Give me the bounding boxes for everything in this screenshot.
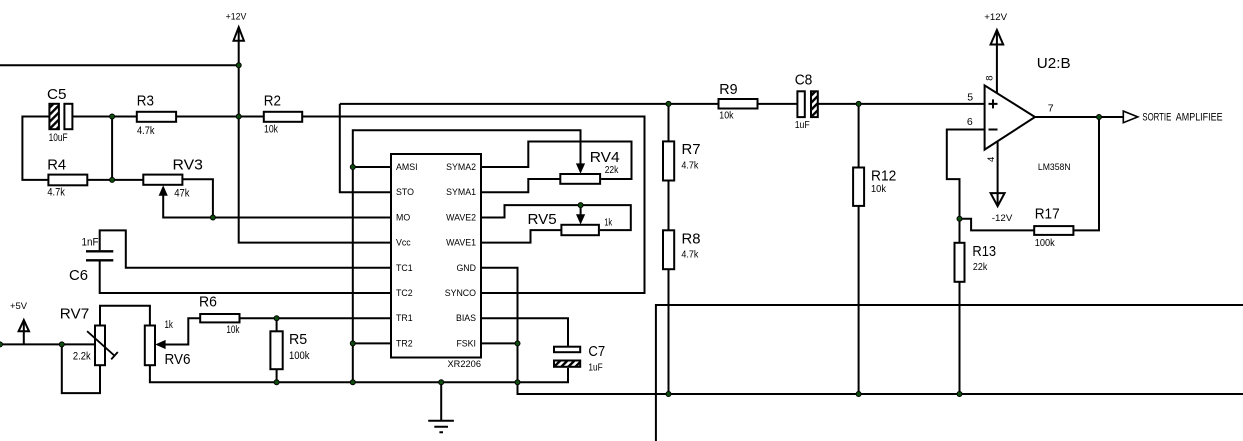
wire BIAS to C7 top — [481, 318, 568, 346]
svg-text:R8: R8 — [682, 232, 701, 248]
svg-text:R3: R3 — [137, 92, 154, 109]
wire AMSI to rail x353 — [353, 166, 391, 168]
resistor R5 — [270, 331, 282, 369]
wire rail to R2 left — [239, 116, 264, 118]
svg-text:1k: 1k — [604, 217, 612, 228]
potentiometer RV6 body — [145, 326, 155, 366]
wire GND pin rail down to lower bus — [481, 268, 1243, 394]
svg-text:WAVE2: WAVE2 — [446, 212, 476, 222]
wire RV4 wiper arrowhead — [576, 163, 585, 173]
node pin6/R13/R17 — [957, 216, 962, 221]
pin number 5 — [967, 92, 973, 104]
op-amp U2:B triangle — [985, 85, 1035, 149]
wire op-amp pin7 output — [1035, 116, 1123, 118]
power symbol -12V arrow — [991, 193, 1005, 206]
node R12 lower bus — [856, 392, 861, 397]
svg-text:BIAS: BIAS — [456, 313, 476, 323]
label RV6 — [165, 350, 191, 367]
node R5 bottom — [274, 380, 279, 385]
label R3 — [137, 92, 154, 109]
resistor R9 — [719, 99, 758, 109]
node FSKI/GND rail — [515, 341, 520, 346]
wire RV3 wiper arrowhead — [159, 185, 168, 196]
label R6 — [199, 294, 217, 310]
svg-text:10uF: 10uF — [49, 132, 68, 144]
wire +5V feed to RV7 left — [0, 343, 95, 345]
svg-text:+12V: +12V — [226, 11, 248, 21]
potentiometer RV3 body — [143, 175, 182, 185]
svg-text:R2: R2 — [264, 92, 281, 109]
label 10k R9 — [719, 110, 733, 122]
label R4 — [47, 158, 66, 174]
potentiometer RV4 body — [560, 174, 600, 184]
power symbol +5V stem — [23, 320, 25, 344]
resistor R3 — [137, 112, 176, 122]
svg-text:R4: R4 — [47, 158, 66, 174]
svg-text:-12V: -12V — [992, 213, 1013, 224]
label 2.2k RV7 — [73, 351, 92, 363]
wire R5 top branch — [276, 318, 278, 331]
label C7 — [588, 344, 605, 360]
wire R7 R8 rail — [668, 104, 670, 394]
node R8 lower bus — [666, 392, 671, 397]
svg-text:+12V: +12V — [984, 12, 1007, 23]
svg-text:SYMA1: SYMA1 — [446, 187, 476, 197]
wire R5 bottom branch — [276, 369, 278, 382]
node C5/R3 — [110, 114, 115, 119]
svg-text:FSKI: FSKI — [456, 338, 476, 348]
resistor R17 — [1034, 226, 1073, 235]
wire R13 bottom to lower bus — [959, 282, 961, 394]
svg-text:RV6: RV6 — [165, 350, 191, 367]
svg-text:22k: 22k — [973, 261, 988, 273]
svg-text:LM358N: LM358N — [1038, 162, 1071, 172]
pin number 4 rotated — [986, 157, 997, 162]
svg-text:10k: 10k — [226, 324, 239, 337]
label R9 — [719, 82, 737, 98]
resistor R12 — [853, 168, 864, 206]
svg-text:U2:B: U2:B — [1037, 56, 1071, 72]
svg-text:+5V: +5V — [10, 301, 28, 312]
ground symbol — [428, 421, 454, 433]
IC U1 pin labels left — [396, 162, 418, 348]
label 4.7k R4 — [47, 187, 65, 199]
node GND rail ground bus — [515, 380, 520, 385]
TEXT_START — [10, 11, 1223, 372]
resistor R13 — [955, 243, 965, 282]
label 1nF — [82, 237, 99, 249]
wire node A to R3 — [112, 116, 137, 118]
power symbol +12V (op-amp) — [991, 30, 1004, 45]
label 47k RV3 — [174, 188, 190, 200]
wire R2 right long to SYNCO rail — [302, 117, 644, 294]
svg-text:100k: 100k — [1035, 238, 1055, 250]
svg-text:1k: 1k — [165, 319, 174, 332]
wire R12 rail — [858, 104, 860, 394]
svg-text:MO: MO — [396, 212, 410, 222]
IC U1 pin labels right — [445, 162, 476, 348]
label R7 — [682, 142, 701, 158]
svg-text:C8: C8 — [795, 72, 813, 88]
svg-text:R7: R7 — [682, 142, 701, 158]
wire op-amp pin8 stem — [996, 30, 998, 94]
svg-text:Vcc: Vcc — [396, 238, 411, 248]
svg-text:1uF: 1uF — [588, 362, 603, 373]
svg-text:RV7: RV7 — [60, 307, 89, 323]
svg-text:R5: R5 — [289, 332, 307, 348]
capacitor C7 plate positive — [554, 347, 580, 353]
pin number 8 rotated — [984, 75, 995, 80]
node RV7 branch — [59, 342, 64, 347]
capacitor C8 plate negative (hatched) — [811, 91, 818, 117]
wire ground stem — [440, 382, 442, 421]
svg-text:1nF: 1nF — [82, 237, 99, 249]
capacitor C5 plate positive — [64, 104, 72, 129]
label +12V op-amp — [984, 12, 1007, 23]
label 4.7k R8 — [681, 249, 698, 261]
node +12V rail top feed — [236, 63, 241, 68]
wire RV7 top to RV6 top — [100, 306, 150, 326]
wire STO to top bus — [340, 104, 391, 192]
resistor R7 — [663, 141, 674, 180]
wire feedback node to R17 left — [960, 219, 1035, 231]
label -12V — [992, 213, 1013, 224]
label 10k R2 — [264, 124, 278, 136]
node RV3 wiper — [210, 215, 215, 220]
wire RV6 wiper arrowhead — [155, 340, 165, 349]
resistor R4 — [48, 175, 87, 186]
svg-text:STO: STO — [396, 187, 414, 197]
wire op-amp pin4 stem — [997, 140, 999, 205]
svg-text:RV3: RV3 — [173, 157, 203, 173]
label LM358N — [1038, 162, 1071, 172]
resistor R8 — [663, 230, 674, 269]
svg-text:TR2: TR2 — [396, 338, 413, 348]
label 100k R17 — [1035, 238, 1055, 250]
wire RV6 bottom to ground bus to C7 bottom — [150, 365, 568, 382]
svg-text:SORTIE: SORTIE — [1142, 110, 1171, 123]
svg-text:6: 6 — [967, 116, 973, 128]
svg-text:SYMA2: SYMA2 — [446, 162, 476, 172]
label R8 — [682, 232, 701, 248]
wire RV5 wiper stem — [580, 205, 582, 218]
label 1k RV5 — [604, 217, 612, 228]
wire RV3 wiper to node and MO pin — [163, 194, 391, 218]
svg-text:WAVE1: WAVE1 — [446, 238, 476, 248]
node R13 lower bus — [957, 392, 962, 397]
svg-text:R6: R6 — [199, 294, 217, 310]
node R4/RV3 — [110, 177, 115, 182]
power symbol +12V (left) — [234, 27, 244, 41]
wire node A vertical to R4/RV3 node — [111, 117, 113, 180]
svg-text:10k: 10k — [264, 124, 278, 136]
svg-text:TC1: TC1 — [396, 263, 413, 273]
label RV4 — [590, 149, 620, 165]
wire SYMA2 to RV4 right over the top — [481, 142, 632, 180]
label 10k R6 — [226, 324, 239, 337]
label 10k R12 — [871, 184, 886, 196]
capacitor C7 plate negative (hatched) — [554, 361, 580, 367]
label RV5 — [528, 212, 557, 228]
svg-text:AMSI: AMSI — [396, 162, 418, 172]
label 22k R13 — [973, 261, 988, 273]
wire op-amp pin6 jog to feedback node — [947, 130, 985, 219]
op-amp minus input marker — [989, 129, 998, 131]
node RV5 wiper — [578, 203, 583, 208]
label R12 — [871, 167, 896, 183]
potentiometer RV5 body — [561, 225, 599, 235]
svg-text:AMPLIFIEE: AMPLIFIEE — [1176, 112, 1223, 124]
wire C5 right to node A — [72, 116, 112, 118]
wire WAVE1 to RV5 left — [481, 230, 561, 243]
svg-text:4: 4 — [986, 157, 997, 162]
svg-text:R9: R9 — [719, 82, 737, 98]
svg-text:10k: 10k — [871, 184, 886, 196]
node R5 top — [274, 316, 279, 321]
wire C6 bottom plate to TC2 — [100, 261, 391, 293]
svg-text:R12: R12 — [871, 167, 896, 183]
capacitor C5 plate negative (hatched) — [49, 104, 59, 129]
node AMSI rail — [350, 165, 355, 170]
svg-text:5: 5 — [967, 92, 973, 104]
op-amp plus input marker — [989, 99, 998, 108]
label 1uF C7 — [588, 362, 603, 373]
svg-text:C7: C7 — [588, 344, 605, 360]
label 22k RV4 — [605, 164, 619, 175]
wire R3 right to +12V rail — [176, 116, 239, 118]
node ground bus center — [439, 380, 444, 385]
label 4.7k R3 — [137, 125, 155, 137]
svg-text:R13: R13 — [972, 243, 996, 259]
capacitor C6 plates — [86, 251, 113, 260]
label 4.7k R7 — [681, 160, 698, 172]
node R12 top bus — [856, 101, 861, 106]
wire RV6 wiper to R6 left — [157, 318, 200, 344]
svg-text:2.2k: 2.2k — [73, 351, 92, 363]
resistor R2 — [264, 112, 302, 122]
node TR2 rail — [350, 341, 355, 346]
svg-text:4.7k: 4.7k — [681, 249, 698, 261]
label +5V — [10, 301, 28, 312]
label 100k R5 — [289, 350, 310, 362]
wire WAVE2 to RV5 wiper and right terminal — [481, 205, 631, 230]
label AMPLIFIEE — [1176, 112, 1223, 124]
node output feedback — [1097, 115, 1102, 120]
svg-text:TR1: TR1 — [396, 313, 413, 323]
wire FSKI to rail — [481, 342, 518, 344]
label C5 — [47, 88, 66, 104]
label R2 — [264, 92, 281, 109]
potentiometer RV7 trimmer diagonal — [87, 331, 118, 359]
svg-text:1uF: 1uF — [795, 119, 810, 131]
power +12V rail vertical with Vcc branch — [239, 27, 391, 242]
node +12V rail R3/R2 — [236, 114, 241, 119]
node rail ground bus — [350, 380, 355, 385]
potentiometer RV7 body — [95, 326, 105, 366]
label R17 — [1035, 205, 1060, 221]
svg-text:8: 8 — [984, 75, 995, 80]
wire TR1 line R6 to chip — [240, 317, 392, 319]
wire R17 right up to output node — [1073, 117, 1099, 230]
svg-text:SYNCO: SYNCO — [445, 288, 476, 298]
wire TR2 to rail — [353, 342, 391, 344]
DOTS_START — [0, 63, 1102, 397]
power symbol +5V arrow — [19, 320, 29, 331]
wire C5 left loop to R4 — [22, 117, 49, 180]
wire R4 right to RV3 left — [87, 179, 143, 181]
label 1uF C8 — [795, 119, 810, 131]
label XR2206 — [448, 359, 481, 369]
wire RV3 right terminal down to wiper node — [182, 179, 213, 217]
label C8 — [795, 72, 813, 88]
label SORTIE — [1142, 110, 1171, 123]
svg-text:R17: R17 — [1035, 205, 1060, 221]
svg-text:10k: 10k — [719, 110, 733, 122]
PARTS_START — [48, 85, 1137, 432]
label 1k RV6 — [165, 319, 174, 332]
wire RV5 wiper arrowhead — [576, 214, 585, 224]
wire feedback node to R13 top — [959, 219, 961, 243]
svg-text:100k: 100k — [289, 350, 310, 362]
resistor R6 — [200, 314, 239, 322]
svg-text:47k: 47k — [174, 188, 190, 200]
output port SORTIE AMPLIFIEE triangle — [1123, 111, 1138, 123]
label R13 — [972, 243, 996, 259]
svg-text:4.7k: 4.7k — [137, 125, 155, 137]
svg-text:GND: GND — [456, 263, 476, 273]
svg-text:C5: C5 — [47, 88, 66, 104]
pin number 6 — [967, 116, 973, 128]
svg-text:4.7k: 4.7k — [681, 160, 698, 172]
wire rail x353 AMSI/TR2/ground-bus with RV4 wiper branch — [353, 130, 581, 382]
pin number 7 — [1048, 103, 1054, 115]
node +5V edge — [0, 342, 3, 347]
label RV3 — [173, 157, 203, 173]
capacitor C8 plate positive — [797, 91, 804, 117]
wire lower-right open net y305 — [656, 305, 1243, 441]
label U2:B — [1037, 56, 1071, 72]
svg-text:22k: 22k — [605, 164, 619, 175]
node R7 top bus — [666, 101, 671, 106]
svg-text:XR2206: XR2206 — [448, 359, 481, 369]
wire RV7 bottom U-loop — [62, 344, 100, 393]
svg-text:RV5: RV5 — [528, 212, 557, 228]
svg-text:7: 7 — [1048, 103, 1054, 115]
IC U1 XR2206 body — [391, 154, 481, 358]
wire SYMA1 to RV4 left — [481, 179, 560, 192]
label R5 — [289, 332, 307, 348]
label +12V left — [226, 11, 248, 21]
svg-text:C6: C6 — [69, 268, 88, 284]
svg-text:4.7k: 4.7k — [47, 187, 65, 199]
svg-text:TC2: TC2 — [396, 288, 413, 298]
label 10uF — [49, 132, 68, 144]
wire top bus y104 to op-amp pin5 — [340, 103, 985, 105]
wire top-left feed to +12V rail — [0, 64, 239, 66]
label RV7 — [60, 307, 89, 323]
wire C6 top plate to TC1 — [100, 230, 391, 267]
label C6 — [69, 268, 88, 284]
